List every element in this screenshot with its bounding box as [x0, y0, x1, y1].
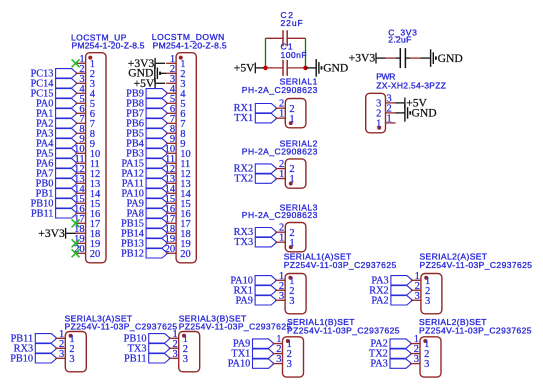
SERIAL3(B)SET pin 3 — [169, 349, 188, 365]
net label PA11 (LOCSTM_DOWN pin 13) — [122, 178, 168, 189]
LOCSTM_UP pin 19 — [74, 234, 100, 250]
power port +3V3 (LOCSTM_UP pin 18) — [38, 227, 75, 240]
LOCSTM_DOWN pin 19 — [165, 234, 191, 250]
LOCSTM_DOWN pin 5 — [166, 94, 185, 110]
net label PB1 (LOCSTM_UP pin 14) — [36, 188, 77, 199]
connector body SERIAL2(A)SET — [421, 274, 442, 314]
svg-text:GND: GND — [438, 52, 463, 65]
svg-text:PZ254V-11-03P_C2937625: PZ254V-11-03P_C2937625 — [287, 325, 400, 335]
net label RX2 (SERIAL2 pin 2) — [234, 164, 277, 175]
net label RX2 (SERIAL2(A)SET pin 2) — [369, 285, 412, 296]
net label TX2 (SERIAL2(B)SET pin 2) — [369, 349, 412, 360]
LOCSTM_UP pin 11 — [74, 154, 99, 170]
svg-text:PA9: PA9 — [236, 295, 253, 306]
connector body SERIAL3(B)SET — [179, 332, 200, 372]
ground symbol (LOCSTM_DOWN pin 2) — [128, 65, 160, 83]
SERIAL3(A)SET pin 1 — [55, 329, 74, 345]
net label PB12 (LOCSTM_DOWN pin 20) — [121, 248, 168, 259]
net label PB11 (SERIAL3(B)SET pin 3) — [124, 353, 170, 364]
PWR pin 2 — [376, 103, 395, 119]
svg-text:PM254-1-20-Z-8.5: PM254-1-20-Z-8.5 — [153, 41, 227, 51]
LOCSTM_DOWN pin 18 — [165, 224, 191, 240]
LOCSTM_DOWN pin 9 — [166, 134, 185, 150]
net label PA8 (LOCSTM_DOWN pin 16) — [127, 208, 168, 219]
no-connect X at LOCSTM_UP pin 1 — [72, 59, 80, 67]
LOCSTM_DOWN pin 4 — [166, 84, 186, 100]
net label PB3 (LOCSTM_DOWN pin 10) — [126, 148, 167, 159]
power port +5V (LOCSTM_DOWN pin 3) — [134, 77, 166, 90]
svg-text:+3V3: +3V3 — [349, 52, 376, 65]
SERIAL2(A)SET pin 3 — [411, 291, 430, 307]
svg-text:PZ254V-11-03P_C2937625: PZ254V-11-03P_C2937625 — [179, 321, 292, 331]
connector body LOCSTM_UP — [86, 53, 106, 263]
svg-text:1: 1 — [289, 238, 294, 249]
net label TX2 (SERIAL2 pin 1) — [234, 174, 277, 185]
capacitor C2 (22uF) — [266, 30, 306, 46]
net label PA9 (SERIAL1(B)SET pin 1) — [233, 339, 274, 350]
svg-text:1: 1 — [289, 114, 294, 125]
LOCSTM_DOWN pin 14 — [165, 184, 192, 200]
net label PA1 (LOCSTM_UP pin 6) — [36, 108, 77, 119]
svg-text:3: 3 — [172, 349, 177, 360]
LOCSTM_UP pin 12 — [74, 164, 100, 180]
svg-text:TX1: TX1 — [234, 113, 253, 124]
wire +5V net vertical left — [265, 38, 267, 68]
SERIAL1(B)SET pin 1 — [273, 334, 292, 350]
SERIAL3(A)SET pin 3 — [55, 349, 74, 365]
net label PB7 (LOCSTM_DOWN pin 6) — [126, 108, 167, 119]
net label PB10 (LOCSTM_UP pin 15) — [30, 198, 77, 209]
svg-text:3: 3 — [183, 354, 188, 365]
net label PB4 (LOCSTM_DOWN pin 9) — [126, 138, 167, 149]
power port +3V3 (LOCSTM_DOWN pin 1) — [128, 57, 165, 70]
LOCSTM_UP pin 6 — [76, 104, 95, 120]
LOCSTM_DOWN pin 15 — [165, 194, 191, 210]
svg-text:1: 1 — [387, 113, 392, 124]
net label PA3 (SERIAL2(A)SET pin 1) — [371, 275, 412, 286]
svg-text:1: 1 — [279, 169, 284, 180]
net label PA10 (SERIAL1(B)SET pin 3) — [228, 359, 274, 370]
net label PB13 (LOCSTM_DOWN pin 19) — [121, 238, 168, 249]
svg-text:3: 3 — [276, 354, 281, 365]
svg-text:GND: GND — [412, 107, 437, 120]
net label PB0 (LOCSTM_UP pin 13) — [36, 178, 77, 189]
net label PA0 (LOCSTM_UP pin 5) — [36, 98, 77, 109]
svg-text:PZ254V-11-03P_C2937625: PZ254V-11-03P_C2937625 — [419, 325, 532, 335]
svg-text:PA10: PA10 — [228, 359, 251, 370]
net label PA12 (LOCSTM_DOWN pin 12) — [121, 168, 167, 179]
net label PB9 (LOCSTM_DOWN pin 4) — [126, 88, 167, 99]
LOCSTM_UP pin 15 — [74, 194, 100, 210]
connector body SERIAL3(A)SET — [65, 332, 86, 372]
power port +5V (C1/C2 rail) — [234, 62, 266, 75]
SERIAL1(B)SET pin 2 — [273, 344, 292, 360]
svg-text:3: 3 — [59, 349, 64, 360]
PWR pin 3 — [376, 93, 395, 109]
svg-text:20: 20 — [90, 249, 101, 260]
svg-text:PH-2A_C2908623: PH-2A_C2908623 — [242, 146, 318, 156]
junction GND node — [303, 66, 308, 71]
wire PWR pin 2 to GND — [396, 112, 405, 114]
wire C_3V3 to GND — [421, 57, 431, 59]
LOCSTM_DOWN pin 20 — [165, 244, 191, 260]
connector body LOCSTM_DOWN — [176, 53, 196, 263]
LOCSTM_DOWN pin 10 — [165, 144, 191, 160]
net label PB11 (SERIAL3(A)SET pin 1) — [11, 333, 57, 344]
LOCSTM_UP pin 9 — [76, 134, 95, 150]
net label PA9 (SERIAL1(A)SET pin 3) — [236, 295, 277, 306]
svg-text:+3V3: +3V3 — [38, 227, 65, 240]
net label RX1 (SERIAL1 pin 2) — [234, 103, 277, 114]
net label PA9 (LOCSTM_DOWN pin 15) — [127, 198, 168, 209]
SERIAL2(A)SET pin 2 — [411, 281, 430, 297]
svg-text:20: 20 — [165, 244, 176, 255]
net label PA10 (LOCSTM_DOWN pin 14) — [121, 188, 167, 199]
SERIAL3(A)SET pin 2 — [55, 339, 74, 355]
LOCSTM_UP pin 20 — [74, 244, 100, 260]
svg-text:1: 1 — [376, 119, 381, 130]
wire GND net vertical right — [305, 38, 307, 68]
SERIAL3 pin 2 — [275, 223, 294, 239]
svg-text:100nF: 100nF — [281, 50, 307, 60]
svg-text:GND: GND — [323, 62, 348, 75]
net label RX3 (SERIAL3 pin 2) — [234, 227, 277, 238]
net label TX3 (SERIAL3 pin 1) — [234, 237, 277, 248]
svg-text:PZ254V-11-03P_C2937625: PZ254V-11-03P_C2937625 — [65, 321, 178, 331]
capacitor C_3V3 (2.2uF) — [386, 48, 421, 68]
net label TX3 (SERIAL3(B)SET pin 2) — [128, 343, 171, 354]
LOCSTM_DOWN pin 16 — [165, 204, 191, 220]
net label PA6 (LOCSTM_UP pin 11) — [36, 158, 77, 169]
net label PB10 (SERIAL3(A)SET pin 3) — [10, 353, 57, 364]
svg-text:3: 3 — [289, 296, 294, 307]
LOCSTM_UP pin 17 — [74, 214, 100, 230]
LOCSTM_UP pin 3 — [76, 74, 95, 90]
LOCSTM_DOWN pin 17 — [165, 214, 191, 230]
net label TX1 (SERIAL1(B)SET pin 2) — [231, 349, 274, 360]
SERIAL1(B)SET pin 3 — [273, 354, 292, 370]
LOCSTM_DOWN pin 2 — [166, 64, 185, 80]
junction +5V node — [263, 66, 268, 71]
svg-text:3: 3 — [279, 291, 284, 302]
LOCSTM_UP pin 4 — [76, 84, 96, 100]
LOCSTM_UP pin 2 — [76, 64, 95, 80]
power port +3V3 (C_3V3) — [349, 52, 386, 65]
connector body SERIAL3 — [285, 223, 306, 252]
net label PA2 (LOCSTM_UP pin 7) — [36, 118, 77, 129]
net label PC14 (LOCSTM_UP pin 3) — [30, 78, 77, 89]
svg-text:3: 3 — [414, 354, 419, 365]
LOCSTM_UP pin 16 — [74, 204, 100, 220]
net label TX1 (SERIAL1 pin 1) — [234, 113, 277, 124]
net label PB15 (LOCSTM_DOWN pin 17) — [121, 218, 168, 229]
connector body SERIAL2(B)SET — [420, 337, 441, 377]
connector body SERIAL1(A)SET — [285, 274, 306, 314]
LOCSTM_DOWN pin 11 — [165, 154, 190, 170]
SERIAL1(A)SET pin 3 — [275, 291, 294, 307]
SERIAL2(B)SET pin 1 — [410, 334, 429, 350]
svg-text:PB11: PB11 — [124, 353, 147, 364]
ground symbol (C1/C2 GND) — [316, 59, 348, 77]
SERIAL2(A)SET pin 1 — [411, 271, 430, 287]
net label PA5 (LOCSTM_UP pin 10) — [36, 148, 77, 159]
capacitor C1 (100nF) — [266, 60, 306, 76]
svg-text:3: 3 — [425, 296, 430, 307]
svg-text:3: 3 — [69, 354, 74, 365]
LOCSTM_UP pin 10 — [74, 144, 100, 160]
LOCSTM_UP pin 1 — [76, 54, 95, 70]
svg-text:3: 3 — [424, 359, 429, 370]
connector body SERIAL1 — [285, 99, 306, 128]
LOCSTM_DOWN pin 13 — [165, 174, 191, 190]
svg-text:1: 1 — [289, 174, 294, 185]
LOCSTM_UP pin 8 — [76, 124, 95, 140]
SERIAL3(B)SET pin 2 — [169, 339, 188, 355]
svg-text:PM254-1-20-Z-8.5: PM254-1-20-Z-8.5 — [72, 41, 145, 51]
SERIAL2 pin 2 — [275, 159, 294, 175]
power port +5V (PWR pin 3) — [396, 97, 428, 110]
svg-text:PZ254V-11-03P_C2937625: PZ254V-11-03P_C2937625 — [284, 260, 397, 270]
no-connect X at LOCSTM_UP pin 19 — [72, 239, 80, 247]
LOCSTM_UP pin 7 — [76, 114, 95, 130]
svg-text:1: 1 — [279, 233, 284, 244]
LOCSTM_DOWN pin 1 — [166, 54, 185, 70]
LOCSTM_UP pin 13 — [74, 174, 100, 190]
wire LOCSTM_DOWN pin2 to GND — [160, 72, 166, 74]
LOCSTM_DOWN pin 8 — [166, 124, 185, 140]
net label PC13 (LOCSTM_UP pin 2) — [30, 68, 77, 79]
svg-text:+5V: +5V — [234, 62, 255, 75]
SERIAL2(B)SET pin 2 — [410, 344, 429, 360]
svg-text:2.2uF: 2.2uF — [388, 35, 411, 45]
svg-text:PB11: PB11 — [31, 208, 54, 219]
LOCSTM_UP pin 5 — [76, 94, 95, 110]
net label PA4 (LOCSTM_UP pin 9) — [36, 138, 77, 149]
no-connect X at LOCSTM_UP pin 17 — [72, 219, 80, 227]
svg-text:1: 1 — [279, 109, 284, 120]
SERIAL2 pin 1 — [275, 169, 294, 185]
svg-text:PA3: PA3 — [370, 359, 387, 370]
net label PB10 (SERIAL3(B)SET pin 1) — [124, 333, 171, 344]
SERIAL3 pin 1 — [275, 233, 294, 249]
ground symbol (PWR GND) — [405, 104, 437, 122]
net label PA2 (SERIAL2(A)SET pin 3) — [371, 295, 412, 306]
LOCSTM_UP pin 18 — [74, 224, 100, 240]
connector body SERIAL2 — [285, 159, 306, 188]
svg-text:3: 3 — [415, 291, 420, 302]
SERIAL1(A)SET pin 2 — [275, 281, 294, 297]
connector body SERIAL1(B)SET — [283, 337, 304, 377]
LOCSTM_DOWN pin 6 — [166, 104, 185, 120]
net label PB11 (LOCSTM_UP pin 16) — [31, 208, 77, 219]
SERIAL1 pin 1 — [275, 109, 294, 125]
LOCSTM_UP pin 14 — [74, 184, 101, 200]
PWR pin 1 — [376, 113, 395, 129]
net label PA3 (LOCSTM_UP pin 8) — [36, 128, 77, 139]
svg-text:ZX-XH2.54-3PZZ: ZX-XH2.54-3PZZ — [376, 81, 446, 91]
net label PB5 (LOCSTM_DOWN pin 8) — [126, 128, 167, 139]
no-connect X at LOCSTM_UP pin 20 — [72, 249, 80, 257]
svg-text:3: 3 — [287, 359, 292, 370]
svg-text:PH-2A_C2908623: PH-2A_C2908623 — [242, 210, 318, 220]
ground symbol (C_3V3 GND) — [431, 49, 463, 67]
net label PA10 (SERIAL1(A)SET pin 1) — [230, 275, 276, 286]
net label PA3 (SERIAL2(B)SET pin 3) — [370, 359, 411, 370]
net label RX3 (SERIAL3(A)SET pin 2) — [14, 343, 57, 354]
net label PB14 (LOCSTM_DOWN pin 18) — [121, 228, 168, 239]
SERIAL2(B)SET pin 3 — [410, 354, 429, 370]
net label PA2 (SERIAL2(B)SET pin 1) — [370, 339, 411, 350]
wire GND lead — [306, 67, 317, 69]
svg-text:PH-2A_C2908623: PH-2A_C2908623 — [242, 85, 318, 95]
svg-text:PZ254V-11-03P_C2937625: PZ254V-11-03P_C2937625 — [420, 260, 533, 270]
svg-text:PB10: PB10 — [10, 353, 33, 364]
svg-text:20: 20 — [180, 249, 191, 260]
svg-text:TX2: TX2 — [234, 174, 253, 185]
SERIAL1 pin 2 — [275, 99, 294, 115]
net label PC15 (LOCSTM_UP pin 4) — [30, 88, 77, 99]
net label PA15 (LOCSTM_DOWN pin 11) — [121, 158, 167, 169]
svg-text:22uF: 22uF — [281, 18, 303, 28]
connector body PWR — [366, 93, 386, 133]
LOCSTM_DOWN pin 3 — [166, 74, 185, 90]
net label PB8 (LOCSTM_DOWN pin 5) — [126, 98, 167, 109]
LOCSTM_DOWN pin 7 — [166, 114, 185, 130]
LOCSTM_DOWN pin 12 — [165, 164, 191, 180]
svg-text:PA2: PA2 — [371, 295, 388, 306]
SERIAL1(A)SET pin 1 — [275, 271, 294, 287]
svg-text:TX3: TX3 — [234, 237, 253, 248]
SERIAL3(B)SET pin 1 — [169, 329, 188, 345]
svg-text:PB12: PB12 — [121, 248, 144, 259]
net label RX1 (SERIAL1(A)SET pin 2) — [233, 285, 276, 296]
net label PA7 (LOCSTM_UP pin 12) — [36, 168, 77, 179]
net label PB6 (LOCSTM_DOWN pin 7) — [126, 118, 167, 129]
